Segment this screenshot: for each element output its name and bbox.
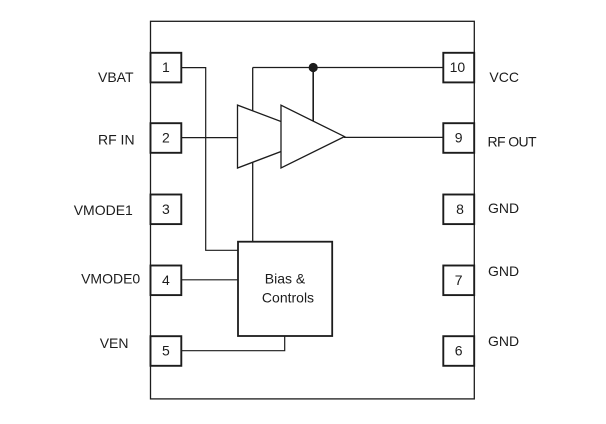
svg-text:10: 10 <box>450 59 466 75</box>
svg-text:6: 6 <box>455 343 463 359</box>
amplifier A1 <box>238 105 321 168</box>
svg-text:Bias &: Bias & <box>265 271 306 287</box>
svg-text:RF IN: RF IN <box>98 131 135 147</box>
svg-text:8: 8 <box>456 201 464 217</box>
wire VCC junction down to amplifier A2 <box>312 68 314 123</box>
pin 10 box <box>443 53 474 83</box>
svg-text:VMODE1: VMODE1 <box>74 202 133 218</box>
wire VCC rail down to Bias block top <box>252 68 254 242</box>
svg-text:9: 9 <box>455 130 463 146</box>
pin 3 box <box>151 195 182 225</box>
svg-text:2: 2 <box>162 130 170 146</box>
svg-text:GND: GND <box>488 263 519 279</box>
svg-text:GND: GND <box>488 333 519 349</box>
pin 2 box <box>151 123 182 153</box>
wire pin5 VEN to Bias block bottom <box>181 336 284 351</box>
wire amplifier A2 output to pin9 RF OUT <box>344 136 443 138</box>
junction dot <box>309 63 318 72</box>
amplifier A2 <box>281 105 345 168</box>
pin 6 box <box>443 336 474 366</box>
pin 4 box <box>151 266 182 296</box>
pin 7 box <box>443 266 474 296</box>
svg-text:RF OUT: RF OUT <box>488 133 538 149</box>
IC body outline <box>151 21 475 399</box>
pin 5 box <box>151 336 182 366</box>
wire VCC top rail to pin10 <box>253 67 444 69</box>
svg-text:5: 5 <box>162 343 170 359</box>
svg-text:7: 7 <box>455 272 463 288</box>
wire pin2 RF IN to amplifier A1 input <box>181 137 238 139</box>
svg-text:GND: GND <box>488 200 519 216</box>
svg-text:VEN: VEN <box>100 335 129 351</box>
svg-text:VMODE0: VMODE0 <box>81 271 140 287</box>
pin 1 box <box>151 53 182 83</box>
pin 8 box <box>443 195 474 225</box>
svg-text:3: 3 <box>162 201 170 217</box>
Bias & Controls block <box>238 242 332 336</box>
pin 9 box <box>443 123 474 153</box>
svg-text:VBAT: VBAT <box>98 69 134 85</box>
wire pin4 VMODE0 to Bias block <box>181 279 238 281</box>
wire pin1 VBAT to Bias block <box>181 68 238 251</box>
svg-text:VCC: VCC <box>489 69 519 85</box>
Bias & Controls label <box>262 271 314 306</box>
svg-text:1: 1 <box>162 59 170 75</box>
svg-text:4: 4 <box>162 272 170 288</box>
svg-text:Controls: Controls <box>262 289 314 305</box>
